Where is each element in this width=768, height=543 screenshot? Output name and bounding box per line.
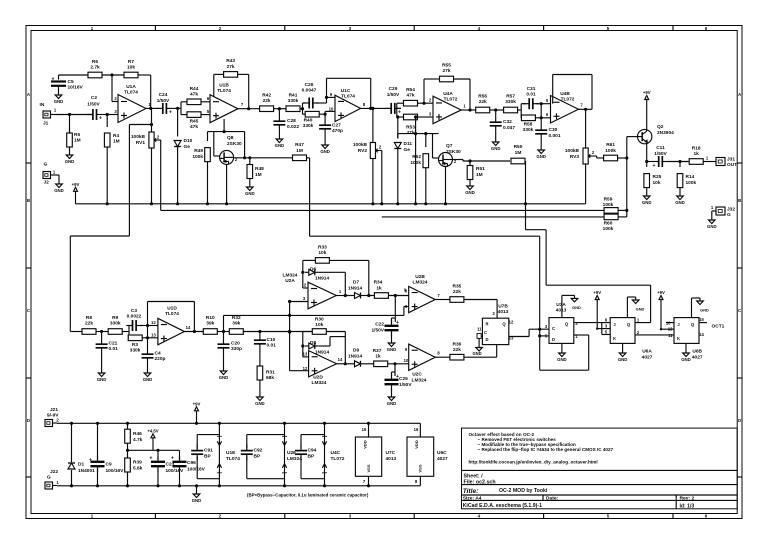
svg-text:J2: J2 <box>44 180 50 186</box>
wire RV1 elbow to divider chain <box>70 125 151 332</box>
wire C26 to U1C pin9 and feedback riser <box>325 92 335 103</box>
svg-text:R: R <box>485 322 488 327</box>
svg-text:VSS: VSS <box>418 464 423 472</box>
svg-text:RV3: RV3 <box>570 154 580 160</box>
op-amp U2A LM324 <box>283 273 337 309</box>
wire U1D output to R10 <box>184 325 203 333</box>
svg-text:LM324: LM324 <box>413 280 428 286</box>
svg-text:Q7: Q7 <box>446 143 453 149</box>
svg-text:13: 13 <box>151 332 156 337</box>
connector J31 OUT <box>716 157 737 169</box>
svg-text:U2B: U2B <box>415 274 425 280</box>
svg-text:4013: 4013 <box>498 309 509 315</box>
wire RV2 bottom to rail <box>371 159 374 206</box>
svg-text:GND: GND <box>54 188 64 193</box>
title block kicad version <box>463 503 542 509</box>
svg-text:GND: GND <box>465 190 475 195</box>
svg-text:10/16V: 10/16V <box>68 85 84 91</box>
svg-text:G: G <box>44 162 48 168</box>
title block title row <box>463 488 548 495</box>
resistor R48 1M <box>247 158 264 184</box>
svg-text:16: 16 <box>414 427 419 432</box>
svg-text:220p: 220p <box>155 356 166 362</box>
resistor R30 10k feedback <box>312 317 326 335</box>
svg-text:R4: R4 <box>113 133 119 139</box>
svg-text:TL072: TL072 <box>331 456 345 462</box>
svg-text:VSS: VSS <box>366 464 371 472</box>
ground below C21 <box>97 370 107 382</box>
svg-text:0.01: 0.01 <box>526 92 536 98</box>
capacitor C32 0.047 <box>490 110 516 139</box>
resistor R43 27k feedback <box>224 58 238 77</box>
wire Q2 base node to feedback resistors <box>626 158 628 210</box>
svg-text:Date:: Date: <box>546 496 559 502</box>
svg-text:100k: 100k <box>686 180 697 186</box>
svg-text:D: D <box>485 337 488 342</box>
wire U6B input stubs <box>666 321 674 338</box>
svg-text:K: K <box>613 336 616 341</box>
svg-text:K: K <box>677 336 680 341</box>
svg-text:R44: R44 <box>190 86 199 92</box>
wire U2A output <box>336 289 370 297</box>
svg-text:D6: D6 <box>310 267 316 273</box>
svg-text:1N914: 1N914 <box>348 286 362 292</box>
wire R40 to U1C pin10 <box>324 107 336 116</box>
ground below U6B <box>681 343 691 362</box>
ground below R51 <box>465 183 475 195</box>
svg-text:100k: 100k <box>603 202 614 208</box>
resistor R33 10k feedback <box>315 245 329 264</box>
svg-text:27k: 27k <box>227 64 235 70</box>
svg-text:GND: GND <box>143 377 153 382</box>
wire Q7 drain to R50 <box>453 159 511 162</box>
diode D1 1N4001 <box>68 422 95 488</box>
power bottom rail <box>57 485 420 487</box>
wire R30 feedback loop lower comparator <box>301 332 345 364</box>
svg-text:4013: 4013 <box>556 308 567 314</box>
svg-text:330k: 330k <box>130 348 141 354</box>
op-amp U2B LM324 <box>405 274 435 313</box>
svg-text:BP: BP <box>204 454 211 460</box>
wire R47 long bus to 4013 divider <box>307 158 540 329</box>
svg-text:TL072: TL072 <box>561 97 575 103</box>
ground below C28 <box>275 136 285 148</box>
signal rail RV1 wiper bus <box>161 209 604 211</box>
resistor R25 10k <box>644 162 662 194</box>
resistor R45 47k <box>181 109 210 130</box>
svg-text:U2A: U2A <box>285 278 295 284</box>
capacitor C94 BP <box>295 435 325 479</box>
+4.5V tap <box>147 428 158 450</box>
svg-text:+: + <box>398 110 401 116</box>
svg-text:OCT1: OCT1 <box>712 324 725 330</box>
svg-text:U6B: U6B <box>692 349 702 355</box>
svg-text:1M: 1M <box>113 139 120 145</box>
ground below U7A <box>557 343 567 362</box>
svg-text:47k: 47k <box>406 130 414 136</box>
svg-text:D1: D1 <box>78 462 84 468</box>
capacitor C25 1/50V <box>385 364 413 394</box>
resistor R39 5.6k <box>125 449 143 488</box>
wire U4A pin3 riser to rail <box>414 115 417 205</box>
svg-text:D10: D10 <box>184 138 193 144</box>
junction input node <box>68 113 71 116</box>
wire R35 to U7B clock <box>464 300 497 320</box>
svg-text:LM324: LM324 <box>412 378 427 384</box>
diode D6 1N914 <box>305 267 346 296</box>
svg-text:0.01: 0.01 <box>267 343 277 349</box>
resistor R42 22k <box>260 93 274 112</box>
capacitor C91 BP <box>191 435 219 479</box>
svg-text:C91: C91 <box>204 448 213 454</box>
wire C11 to R18 <box>669 160 689 163</box>
svg-text:R56: R56 <box>478 94 487 100</box>
svg-text:11: 11 <box>477 327 482 332</box>
wire U1A output <box>146 102 159 110</box>
title block frame <box>462 428 738 509</box>
svg-text:R40: R40 <box>304 118 313 124</box>
resistor R57 330k <box>504 94 518 113</box>
svg-text:GND: GND <box>642 200 652 205</box>
resistor R50 1M <box>511 144 525 164</box>
wire R7 to output node <box>138 75 151 108</box>
svg-text:C4: C4 <box>155 351 161 357</box>
svg-text:U6C: U6C <box>437 450 447 456</box>
svg-text:R52: R52 <box>412 154 421 160</box>
svg-text:1N914: 1N914 <box>348 354 362 360</box>
svg-text:10k: 10k <box>653 180 661 186</box>
svg-text:BP: BP <box>308 454 315 460</box>
svg-text:GND: GND <box>192 498 202 503</box>
svg-text:1/50V: 1/50V <box>654 151 667 157</box>
resistor R9 330k <box>108 315 122 334</box>
svg-text:VDD: VDD <box>363 440 368 449</box>
svg-text:100/16V: 100/16V <box>106 468 125 474</box>
svg-text:Id: 1/3: Id: 1/3 <box>680 503 695 509</box>
potentiometer RV2 100kB <box>353 108 382 158</box>
svg-text:Q8: Q8 <box>227 135 234 141</box>
resistor R32 39k <box>229 315 243 334</box>
svg-text:GND: GND <box>675 200 685 205</box>
svg-text:C29: C29 <box>389 86 398 92</box>
svg-text:U1B: U1B <box>219 83 229 89</box>
resistor R55 27k feedback <box>440 63 454 82</box>
svg-text:LM324: LM324 <box>312 380 327 386</box>
svg-text:5.6k: 5.6k <box>133 466 143 472</box>
svg-text:0.0047: 0.0047 <box>302 88 317 94</box>
svg-text:4027: 4027 <box>692 355 703 361</box>
resistor R40 330k on pin10 path <box>303 111 326 129</box>
resistor R3 330k <box>128 335 147 354</box>
svg-text:14: 14 <box>338 357 343 362</box>
node OCT1 output <box>699 317 725 337</box>
svg-text:U2D: U2D <box>313 375 323 381</box>
diode D8 1N914 <box>305 337 346 356</box>
svg-text:VDD: VDD <box>414 440 419 449</box>
svg-text:R3: R3 <box>132 342 138 348</box>
connector J22 G <box>45 469 59 489</box>
svg-text:C96: C96 <box>187 460 196 466</box>
svg-text:100/16V: 100/16V <box>187 467 206 473</box>
svg-text:+: + <box>150 456 153 462</box>
title block comment text <box>469 432 614 465</box>
wire Q7 source to rail <box>444 167 447 206</box>
svg-text:B: B <box>738 198 741 203</box>
capacitor C10 0.01 <box>254 332 276 367</box>
svg-text:G: G <box>727 212 731 218</box>
ground below C4 <box>143 370 153 382</box>
svg-text:R42: R42 <box>262 93 271 99</box>
svg-text:R32: R32 <box>232 315 241 321</box>
IC U7A 4013 <box>545 302 579 343</box>
svg-text:C92: C92 <box>254 448 263 454</box>
svg-text:U7C: U7C <box>386 450 396 456</box>
svg-text:R55: R55 <box>442 63 451 69</box>
wire comparator reference riser <box>224 307 409 332</box>
svg-text:27k: 27k <box>442 68 450 74</box>
svg-text:+9V: +9V <box>193 401 201 406</box>
svg-text:C22: C22 <box>375 322 384 328</box>
capacitor C9 100/16V <box>89 422 124 488</box>
svg-text:U2C: U2C <box>412 372 422 378</box>
wire comparator plus-input riser <box>288 296 308 371</box>
svg-text:2.7k: 2.7k <box>90 65 100 71</box>
capacitor C2 1/50V <box>87 95 103 122</box>
svg-text:D8: D8 <box>310 340 316 346</box>
svg-text:22k: 22k <box>479 99 487 105</box>
svg-text:22k: 22k <box>263 98 271 104</box>
capacitor C29 1/50V <box>385 86 401 116</box>
capacitor C11 1/50V <box>653 145 669 169</box>
wire R8 to R9 with C21 tap <box>96 330 108 333</box>
svg-text:22k: 22k <box>85 321 93 327</box>
wire U1B output to R42 <box>238 102 260 110</box>
svg-text:R48: R48 <box>255 166 264 172</box>
wire R57 to C31/R58 split <box>518 104 522 118</box>
wire Q8 gate network <box>208 119 245 158</box>
resistor R47 1M <box>293 142 307 161</box>
svg-text:LM324: LM324 <box>287 456 302 462</box>
+9V above U6B <box>657 290 674 330</box>
svg-text:http://tooklife.cocoan.jp/en/i: http://tooklife.cocoan.jp/en/inv/en_diy_… <box>469 460 598 465</box>
svg-text:GND: GND <box>275 143 285 148</box>
svg-text:GND: GND <box>54 99 64 104</box>
resistor R10 39k <box>203 315 217 334</box>
svg-text:GND: GND <box>255 401 265 406</box>
wire U4B feedback loop <box>553 75 592 110</box>
capacitor C92 BP <box>241 435 285 479</box>
svg-text:+: + <box>396 320 399 326</box>
connector J21 9/-9V <box>45 407 59 427</box>
svg-text:R60: R60 <box>604 221 613 227</box>
ground below R14 <box>675 193 685 205</box>
svg-text:+: + <box>89 458 92 464</box>
svg-text:Rev: 2: Rev: 2 <box>680 496 695 502</box>
wire R4 down to +9V rail <box>106 147 109 205</box>
wire U7B reset pin marker to ground <box>477 334 483 345</box>
svg-text:IN: IN <box>40 102 45 108</box>
resistor R59 100k <box>603 197 618 214</box>
svg-text:13: 13 <box>668 327 673 332</box>
svg-text:OUT: OUT <box>727 162 737 168</box>
resistor R31 68k <box>257 366 275 394</box>
svg-text:0.0022: 0.0022 <box>127 314 142 320</box>
svg-text:10: 10 <box>329 107 334 112</box>
ground below C27 <box>320 142 330 154</box>
ground below C20 <box>219 368 229 380</box>
svg-text:OC-2 MOD by Tooki: OC-2 MOD by Tooki <box>499 488 548 494</box>
capacitor C26 0.0047 on pin9 path <box>302 82 327 109</box>
svg-text:1k: 1k <box>694 151 700 157</box>
svg-text:GND: GND <box>707 224 717 229</box>
transistor Q2 2N3904 <box>638 124 675 144</box>
svg-text:D: D <box>552 337 555 342</box>
svg-text:U7B: U7B <box>498 304 508 310</box>
svg-text:R7: R7 <box>128 59 134 65</box>
wire U1D feedback loop <box>148 302 195 332</box>
resistor R56 22k <box>476 94 490 113</box>
svg-text:330k: 330k <box>110 321 121 327</box>
IC U7B 4013 <box>477 304 514 345</box>
wire R18 to output jack <box>703 156 716 162</box>
svg-text:47k: 47k <box>406 93 414 99</box>
svg-text:C94: C94 <box>308 448 317 454</box>
resistor R4 1M <box>104 115 119 148</box>
svg-text:TL074: TL074 <box>124 90 138 96</box>
svg-text:KiCad E.D.A. eeschema (5.1.9): KiCad E.D.A. eeschema (5.1.9)-1 <box>463 503 542 509</box>
wire RV1 wiper to signal rail <box>159 140 161 210</box>
resistor R35 22k <box>450 284 464 303</box>
resistor R18 1k <box>689 146 703 165</box>
connector J1 IN <box>40 102 57 127</box>
svg-text:+9V: +9V <box>593 290 601 295</box>
svg-text:R58: R58 <box>524 122 533 128</box>
transistor Q7 2SK30 <box>439 143 461 167</box>
svg-text:R45: R45 <box>190 119 199 125</box>
diode D9 1N914 <box>348 348 365 367</box>
ground below R25 <box>642 193 652 205</box>
resistor R37 1k <box>365 348 388 367</box>
svg-text:4027: 4027 <box>437 456 448 462</box>
capacitor C5 10/16V <box>51 75 84 92</box>
svg-text:C24: C24 <box>159 92 168 98</box>
svg-text:(BP=Bypass−Capacitor, 0.1u lam: (BP=Bypass−Capacitor, 0.1u laminated cer… <box>247 493 369 498</box>
wire R9 to C3/R3 split <box>122 326 129 338</box>
svg-text:C25: C25 <box>399 376 408 382</box>
resistor R8 22k <box>82 315 96 334</box>
svg-text:J22: J22 <box>50 469 58 475</box>
wire R34 to U2B pin <box>388 288 408 298</box>
svg-text:C27: C27 <box>332 123 341 129</box>
capacitor C23 100/16V <box>150 450 185 487</box>
wire U4A output to R56 <box>461 104 476 112</box>
wire U4B output <box>579 103 593 111</box>
svg-text:R57: R57 <box>506 94 515 100</box>
capacitor C31 0.01 <box>521 86 541 109</box>
svg-text:R54: R54 <box>406 87 415 93</box>
wire U1C output to C29 <box>361 102 388 110</box>
wire divider input elbow <box>70 331 82 333</box>
svg-text:C2: C2 <box>91 95 97 101</box>
svg-text:R51: R51 <box>476 166 485 172</box>
svg-text:GND: GND <box>320 149 330 154</box>
svg-text:R31: R31 <box>266 370 275 376</box>
wire R43 feedback loop <box>214 74 249 108</box>
svg-text:GND: GND <box>700 308 709 313</box>
svg-text:C20: C20 <box>231 341 240 347</box>
wire junction down to U1A pin2 <box>112 75 118 102</box>
svg-text:Sheet: /: Sheet: / <box>464 473 484 479</box>
svg-text:10k: 10k <box>318 250 326 256</box>
IC U6C 4027 power <box>407 423 448 486</box>
svg-text:GND: GND <box>681 357 691 362</box>
capacitor C22 1/50V <box>371 296 399 341</box>
title block sheet and file <box>464 473 496 485</box>
wire U7A data pin stub <box>538 329 549 337</box>
op-amp power pins U4C TL072 <box>322 422 345 488</box>
svg-text:+: + <box>99 116 102 122</box>
svg-text:C3: C3 <box>131 308 137 314</box>
wire U7A feedback loop <box>540 335 589 370</box>
ground elbow above U6A <box>627 297 644 318</box>
svg-text:R41: R41 <box>289 93 298 99</box>
op-amp U2D LM324 <box>303 351 337 387</box>
resistor R54 47k <box>397 87 433 106</box>
svg-text:R30: R30 <box>315 317 324 323</box>
svg-text:U6A: U6A <box>642 349 652 355</box>
svg-text:+: + <box>653 163 656 169</box>
resistor R7 10k <box>124 59 138 78</box>
svg-text:11: 11 <box>668 333 673 338</box>
svg-text:10k: 10k <box>315 322 323 328</box>
svg-text:39k: 39k <box>232 321 240 327</box>
svg-text:R61: R61 <box>606 142 615 148</box>
resistor R5 1M <box>67 115 81 153</box>
svg-text:22k: 22k <box>453 289 461 295</box>
ground below J32 <box>707 211 717 229</box>
ground below C22 <box>387 340 397 352</box>
svg-text:C: C <box>552 326 555 331</box>
ground below C5 <box>54 92 64 104</box>
svg-text:1/50V: 1/50V <box>371 328 384 334</box>
svg-text:2SK30: 2SK30 <box>227 141 242 147</box>
ground below U6A <box>618 343 628 362</box>
svg-text:47k: 47k <box>190 92 198 98</box>
svg-text:GND: GND <box>572 305 581 310</box>
svg-text:RV2: RV2 <box>358 148 368 154</box>
svg-text:C31: C31 <box>527 86 536 92</box>
wire U2C output to R36 <box>435 351 450 358</box>
svg-text:330k: 330k <box>523 127 534 133</box>
svg-text:Size: A4: Size: A4 <box>463 496 482 502</box>
svg-text:Q2: Q2 <box>657 124 664 130</box>
svg-text:TL072: TL072 <box>444 97 458 103</box>
svg-text:C9: C9 <box>106 462 112 468</box>
svg-text:GND: GND <box>97 377 107 382</box>
svg-text:13: 13 <box>303 351 308 356</box>
svg-text:GND: GND <box>472 351 481 356</box>
svg-text:U1A: U1A <box>126 84 136 90</box>
svg-text:+: + <box>169 110 172 116</box>
svg-text:J1: J1 <box>43 121 49 127</box>
svg-text:0.047: 0.047 <box>503 125 515 131</box>
+9V arrow on top rail <box>193 401 201 425</box>
wire U2D plus input <box>288 314 309 371</box>
svg-text:1k: 1k <box>376 286 382 292</box>
resistor R53 47k <box>397 112 433 137</box>
transistor Q8 2SK30 <box>220 135 242 164</box>
resistor R14 100k <box>677 162 696 194</box>
